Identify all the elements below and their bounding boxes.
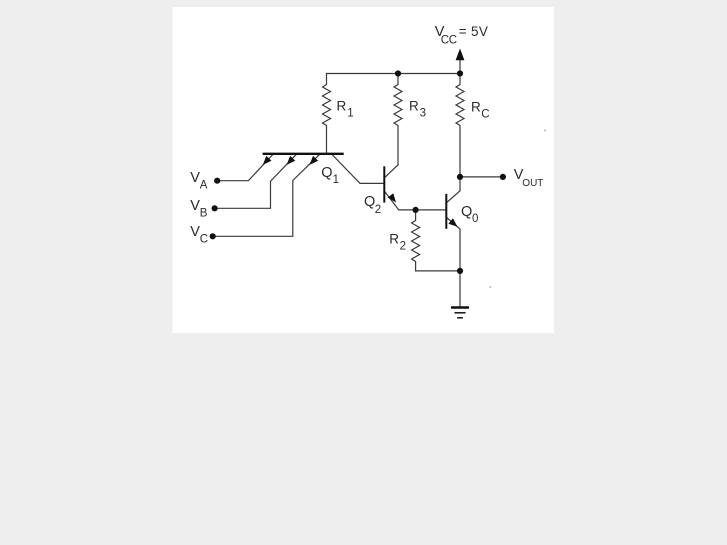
label Q2	[364, 194, 381, 216]
node terminal VA	[214, 178, 220, 184]
arrow Q1 emitter A	[263, 156, 272, 165]
node terminal VC	[210, 233, 216, 239]
transistor Q0 emitter lead	[447, 218, 460, 271]
svg-text:CC: CC	[441, 34, 457, 46]
arrow Q0 emitter	[448, 218, 457, 227]
svg-text:Q: Q	[461, 204, 472, 220]
svg-text:Q: Q	[364, 194, 375, 210]
label R3	[409, 99, 426, 120]
resistor R1	[323, 74, 331, 153]
node junction R3 top	[395, 70, 401, 76]
transistor Q0 base bar	[445, 194, 447, 229]
arrow Q1 emitter C	[310, 156, 319, 165]
ground	[451, 308, 469, 318]
wire emitter B input	[215, 154, 297, 208]
label Q1	[321, 165, 339, 186]
svg-text:V: V	[190, 224, 200, 240]
svg-text:3: 3	[420, 108, 426, 120]
label Q0	[461, 204, 478, 225]
transistor Q2 collector lead	[385, 165, 398, 178]
svg-text:0: 0	[472, 213, 478, 225]
label Vcc = 5V	[435, 24, 488, 46]
wire bottom rail R2 to Q0 emitter	[416, 270, 460, 272]
power Vcc stem	[459, 60, 461, 74]
wire ground stem	[459, 271, 461, 307]
label VB	[190, 198, 208, 219]
wire Q1 collector to Q2 base	[333, 155, 384, 183]
svg-text:Q: Q	[321, 165, 332, 181]
label VOUT	[514, 167, 544, 189]
resistor RC	[456, 74, 464, 177]
label R1	[337, 99, 354, 120]
svg-text:1: 1	[333, 174, 339, 186]
svg-text:2: 2	[375, 204, 381, 216]
svg-text:2: 2	[400, 241, 406, 253]
svg-text:R: R	[471, 100, 481, 115]
node terminal VB	[212, 205, 218, 211]
node junction Q2 emitter / R2 / Q0 base	[413, 207, 419, 213]
svg-text:1: 1	[347, 108, 353, 120]
label RC	[471, 100, 490, 121]
wire emitter C input	[213, 154, 320, 236]
speck 1	[544, 130, 546, 132]
resistor R2	[412, 210, 420, 271]
speck 2	[489, 286, 491, 288]
resistor R3	[394, 74, 402, 165]
svg-text:C: C	[200, 233, 208, 245]
label VA	[190, 170, 208, 192]
transistor Q0 collector lead	[447, 177, 460, 203]
label R2	[389, 231, 406, 252]
svg-text:V: V	[190, 198, 200, 214]
svg-text:B: B	[200, 208, 208, 220]
label VC	[190, 224, 208, 245]
svg-text:R: R	[409, 99, 419, 114]
arrow Q1 emitter B	[287, 156, 296, 165]
svg-text:V: V	[190, 170, 200, 186]
transistor Q1 base bar	[263, 153, 344, 155]
transistor Q2 emitter lead and wire to Q0 base	[385, 191, 446, 210]
node junction VOUT / RC / Q0 collector	[457, 174, 463, 180]
wire output	[460, 176, 503, 178]
node junction Vcc	[457, 70, 463, 76]
wire top supply rail	[327, 73, 461, 75]
power Vcc arrowhead	[456, 49, 465, 61]
svg-text:R: R	[337, 99, 347, 114]
svg-text:R: R	[389, 231, 399, 246]
transistor Q2 base bar	[383, 166, 385, 202]
svg-text:A: A	[200, 180, 208, 192]
wire emitter A input	[217, 154, 273, 180]
arrow Q2 emitter	[388, 193, 396, 202]
white schematic canvas	[173, 7, 555, 333]
node junction bottom rail / ground	[457, 268, 463, 274]
node terminal VOUT	[500, 174, 506, 180]
svg-text:OUT: OUT	[522, 178, 543, 189]
svg-text:C: C	[481, 108, 489, 120]
svg-text:= 5V: = 5V	[459, 24, 488, 39]
